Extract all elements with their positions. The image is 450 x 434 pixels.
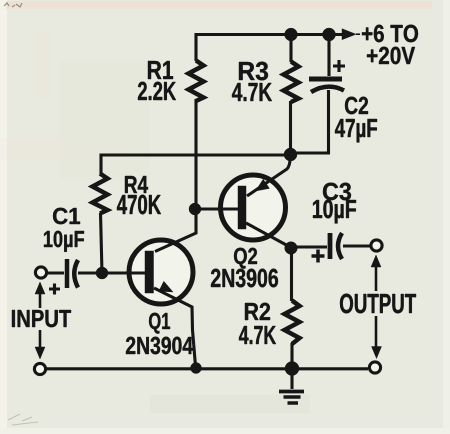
wire R1 top stub [194,33,197,61]
wire R4 bottom to input node [101,213,103,273]
Q1 base bar [145,251,154,293]
output terminal top [371,240,382,251]
C2 plus sign [333,60,345,72]
wire R1 bottom to Q2 base node [194,99,197,209]
input span arrow [35,282,45,359]
node supply C2 [323,28,336,41]
wire R3 top stub [289,33,292,62]
input terminal top [35,267,46,278]
Q2 base bar [238,186,246,229]
Q1 collector wire [155,208,196,252]
wire C1 to Q1 base [78,271,145,274]
node emitter junction [284,148,297,161]
node collector junction [285,242,298,255]
C1 plus sign [49,284,60,295]
Q1 emitter arrow [159,281,173,292]
capacitor C1 [67,259,78,288]
label OUTPUT [340,294,416,314]
wire C2 bottom to emitter node [292,90,329,153]
label INPUT [12,310,71,327]
wire Q2 base [195,207,238,210]
Q2 collector wire [246,223,290,247]
Q2 emitter wire [247,156,290,196]
node Q2 base junction [189,203,201,215]
supply label +6 TO +20V [362,25,418,64]
label R1 2.2K [138,61,176,100]
wire bottom rail [46,367,368,370]
resistor R4 [93,174,108,214]
input terminal bottom [34,363,45,374]
label C2 47uF [335,97,377,143]
transistor Q2 circle [221,175,286,240]
capacitor C3 [330,233,342,259]
node input junction [96,267,108,279]
node ground junction [285,362,299,376]
wire collector node to R2 [290,248,293,301]
resistor R1 [189,61,204,102]
capacitor C2 [309,79,344,92]
wire R3 bottom to emitter node [289,101,292,153]
label Q2 2N3906 [211,248,278,287]
label Q1 2N3904 [126,313,193,355]
output terminal bottom [369,362,380,373]
resistor R3 [284,62,299,103]
wire R2 bottom to ground rail [290,343,293,369]
wire feedback R4 top to emitter node [101,155,290,174]
wire input terminal to C1 [47,271,64,274]
node supply R3 [285,28,298,41]
transistor Q1 circle [129,240,193,304]
Q1 emitter wire [154,288,196,366]
wire top supply rail [196,33,346,36]
wire C2 top stub [327,33,330,76]
supply arrow [342,29,360,40]
output span arrow [371,255,382,359]
wire collector node to C3 [290,245,327,248]
ground [279,369,304,403]
C3 plus sign [312,250,325,263]
label C1 10uF [44,208,84,252]
label R4 470K [117,176,161,214]
label R2 4.7K [239,303,276,344]
Q2 emitter arrow [256,179,270,191]
node emitter rail junction [191,363,202,374]
label R3 4.7K [232,62,272,101]
wire C3 to output terminal [343,244,370,247]
label C3 10uF [313,183,356,224]
resistor R2 [285,301,300,345]
